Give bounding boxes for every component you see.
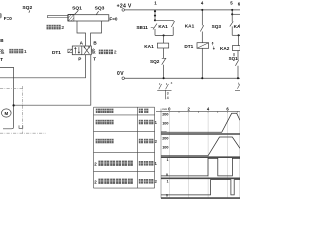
table row1: 单作用缸 | 液压缸1 bbox=[96, 120, 158, 126]
KA1 contact cross-reference (below 0V rail) bbox=[157, 81, 172, 100]
panel boundary row3/row4 bbox=[161, 177, 240, 179]
solenoid valve 2 body (electromagnetic valve 电磁阀2) bbox=[72, 46, 91, 55]
svg-text:2: 2 bbox=[154, 139, 157, 145]
svg-text:KA1: KA1 bbox=[144, 44, 154, 49]
svg-text:KA1: KA1 bbox=[185, 24, 195, 29]
bottom bar of parallel branch bbox=[155, 34, 173, 36]
relay contact KA1 (holding) bbox=[158, 21, 174, 29]
cylinder 2 piston with hatch bbox=[68, 14, 74, 21]
wire to relay coil KA1 bbox=[163, 35, 165, 43]
svg-text:4: 4 bbox=[167, 96, 169, 100]
tank return line from valve 2 T bbox=[14, 55, 91, 106]
electric motor M bbox=[2, 109, 12, 117]
relay coil KA1 bbox=[144, 43, 168, 49]
label DT1 (valve 2 solenoid) bbox=[52, 50, 61, 55]
valve 2 return spring bbox=[91, 49, 95, 54]
svg-text:M: M bbox=[4, 111, 8, 116]
limit switch SQ3 label bbox=[95, 6, 105, 12]
svg-text:SQ2: SQ2 bbox=[150, 59, 160, 64]
svg-text:+24 V: +24 V bbox=[117, 3, 132, 9]
label 0V bbox=[117, 71, 124, 77]
limit switch SQ3 position tick bbox=[96, 11, 98, 14]
hydraulic cylinder 2 body (液压缸2) bbox=[68, 15, 109, 21]
svg-text:P: P bbox=[78, 56, 81, 61]
row1 y-axis labels mm 200 100 bbox=[162, 107, 169, 126]
label +24 V bbox=[117, 3, 132, 9]
port label P (valve 2) bbox=[78, 56, 81, 61]
component table grid bbox=[94, 107, 155, 188]
valve reference symbol above SQ1 bbox=[233, 53, 234, 56]
svg-text:0: 0 bbox=[166, 194, 168, 198]
label F=0 (cylinder 2) bbox=[109, 16, 117, 21]
port label A bbox=[80, 40, 84, 45]
valve reference symbol next to DT1 bbox=[212, 42, 215, 50]
svg-text:100: 100 bbox=[162, 122, 168, 126]
wire SQ3 to bottom bar bbox=[231, 26, 233, 35]
label 电磁阀1 (valve 1 name) bbox=[9, 49, 27, 54]
+24 V supply rail bbox=[122, 9, 240, 12]
rung number 6 (clipped) bbox=[238, 2, 241, 7]
rung number 4 bbox=[201, 0, 204, 5]
wire cylinder2 left port to valve A bbox=[77, 21, 86, 46]
cylinder 2 piston rod (to the left) bbox=[47, 16, 68, 18]
svg-text:DT1: DT1 bbox=[184, 44, 193, 49]
rung number 5 bbox=[230, 0, 233, 5]
rung 4 wire from +24V rail bbox=[201, 9, 203, 26]
hydraulic cylinder 1 (right end remnant, cut off at left edge) bbox=[1, 13, 2, 18]
port label T (valve 2) bbox=[93, 56, 96, 61]
limit switch SQ2 label bbox=[22, 5, 32, 11]
svg-text:SB11: SB11 bbox=[136, 25, 148, 30]
svg-text:DT1: DT1 bbox=[52, 50, 61, 55]
svg-text:1: 1 bbox=[24, 49, 27, 54]
relay contact KA1 (rung 5, clipped) bbox=[234, 22, 242, 29]
valve 2 right position crossed arrows (X) bbox=[84, 47, 90, 54]
port label B bbox=[93, 40, 97, 45]
svg-text:0: 0 bbox=[166, 173, 168, 177]
junction of return lines bbox=[12, 104, 14, 106]
row3 y-axis labels 1 0 bbox=[166, 158, 169, 177]
parallel branch for KA1 holding contact bbox=[155, 20, 173, 35]
wire KA1 contact to DT1 coil bbox=[201, 32, 203, 43]
wire SQ2 to 0V rail bbox=[163, 65, 165, 80]
pump unit enclosure (dash-dot box) bbox=[0, 86, 46, 134]
state curve solenoid valve 1 (row 3) bbox=[161, 158, 240, 176]
valve 2 solenoid DT1 symbol bbox=[68, 49, 72, 53]
svg-text:2: 2 bbox=[154, 179, 157, 185]
svg-text:1: 1 bbox=[154, 161, 157, 167]
rung 5 wire from +24V rail bbox=[231, 9, 233, 22]
svg-text:1: 1 bbox=[154, 120, 157, 126]
svg-text:mm: mm bbox=[162, 107, 168, 111]
bottom bar of rung 5 parallel branch bbox=[232, 34, 240, 36]
svg-text:200: 200 bbox=[162, 113, 168, 117]
solenoid coil DT1 bbox=[184, 43, 208, 50]
timing diagram time axis bbox=[156, 110, 240, 112]
svg-text:F=0: F=0 bbox=[109, 16, 117, 21]
0 V return rail bbox=[122, 77, 240, 80]
wire to relay coil KA2 bbox=[238, 35, 240, 45]
limit switch contact SQ2 bbox=[150, 58, 166, 65]
label F=0 (cylinder 1 rod force) bbox=[4, 16, 12, 21]
row2 y-axis labels mm 200 100 bbox=[161, 130, 168, 150]
push button SB11 contact bbox=[153, 24, 157, 36]
parallel branch wire to rung 6 (clipped) bbox=[232, 13, 240, 15]
svg-text:1: 1 bbox=[167, 179, 169, 183]
valve 1 return spring (cut) bbox=[0, 49, 4, 54]
svg-text:0V: 0V bbox=[117, 71, 124, 77]
table row4: 2位四通换向阀 | 电磁阀2 bbox=[94, 179, 157, 186]
panel boundary row1/row2 bbox=[161, 133, 240, 135]
svg-text:SQ3: SQ3 bbox=[95, 6, 105, 12]
limit switch SQ1 position tick bbox=[75, 11, 78, 15]
svg-text:KA2: KA2 bbox=[220, 46, 230, 51]
label 液压缸2 (cylinder 2 name) bbox=[47, 25, 65, 31]
state curve solenoid valve 2 (row 4) bbox=[161, 180, 240, 195]
push button SB11 label bbox=[136, 25, 153, 30]
relay contact KA1 (rung 4) bbox=[185, 24, 204, 32]
limit switch SQ2 position tick bbox=[28, 10, 31, 12]
tank return line from valve 1 T bbox=[0, 68, 14, 128]
pressure line P to valve 2 bbox=[0, 55, 86, 78]
limit switch contact SQ3 bbox=[212, 21, 234, 28]
wire coil KA1 to SQ2 bbox=[163, 48, 165, 58]
svg-text:100: 100 bbox=[162, 146, 168, 150]
svg-text:SQ3: SQ3 bbox=[212, 24, 222, 29]
table row3: 2位四通换向阀 | 电磁阀1 bbox=[94, 161, 157, 168]
svg-text:2: 2 bbox=[114, 50, 117, 56]
valve 2 left position arrows bbox=[74, 47, 80, 54]
time axis labels 0 2 4 6 bbox=[168, 106, 229, 111]
svg-text:mm: mm bbox=[161, 130, 167, 134]
diagram bottom border bbox=[161, 197, 240, 199]
wire cylinder2 right port to valve B bbox=[91, 21, 102, 46]
displacement curve cylinder 1 (row 1) bbox=[161, 113, 240, 132]
junction dots on rung 1 bbox=[154, 10, 156, 21]
row4 y-axis labels 1 0 bbox=[166, 179, 169, 197]
rung number 1 bbox=[154, 0, 157, 5]
wire SQ1 to 0V rail bbox=[237, 66, 239, 79]
panel boundary row2/row3 bbox=[161, 156, 240, 158]
KA2 contact cross-reference (below rail, clipped) bbox=[235, 83, 240, 91]
svg-text:SQ1: SQ1 bbox=[72, 6, 82, 12]
table row2: 单作用缸 | 液压缸2 bbox=[96, 139, 158, 145]
svg-text:200: 200 bbox=[162, 137, 168, 141]
svg-text:SQ2: SQ2 bbox=[22, 5, 32, 11]
rung 1 wire from +24V rail bbox=[154, 10, 156, 20]
wire coil KA2 down bbox=[237, 51, 239, 61]
label 电磁阀2 (valve 2 name) bbox=[99, 50, 117, 56]
displacement curve cylinder 2 (row 2) bbox=[161, 137, 240, 156]
limit switch SQ1 label bbox=[72, 6, 82, 12]
svg-text:6: 6 bbox=[238, 2, 240, 7]
valve 1 port label B bbox=[0, 38, 4, 43]
timing diagram frame left border bbox=[160, 109, 162, 199]
svg-text:2: 2 bbox=[61, 25, 64, 31]
vertical gridlines bbox=[169, 111, 239, 198]
svg-text:1: 1 bbox=[167, 158, 169, 162]
svg-text:T: T bbox=[0, 57, 3, 62]
valve 1 port label T bbox=[0, 57, 3, 62]
table header 元件描述 | 标识 bbox=[96, 109, 149, 113]
svg-text:F=0: F=0 bbox=[4, 16, 12, 21]
svg-text:SQ1: SQ1 bbox=[229, 56, 239, 61]
svg-text:3: 3 bbox=[167, 92, 169, 96]
wire DT1 coil to 0V rail bbox=[201, 48, 203, 79]
relay coil KA2 (clipped at edge) bbox=[220, 46, 240, 51]
tank return elbow into reservoir bbox=[3, 127, 14, 129]
svg-text:KA1: KA1 bbox=[158, 24, 168, 29]
tank symbol at pump box edge bbox=[19, 125, 23, 128]
time axis tick marks bbox=[169, 111, 237, 113]
limit switch contact SQ1 bbox=[229, 56, 239, 66]
svg-text:T: T bbox=[93, 56, 96, 61]
